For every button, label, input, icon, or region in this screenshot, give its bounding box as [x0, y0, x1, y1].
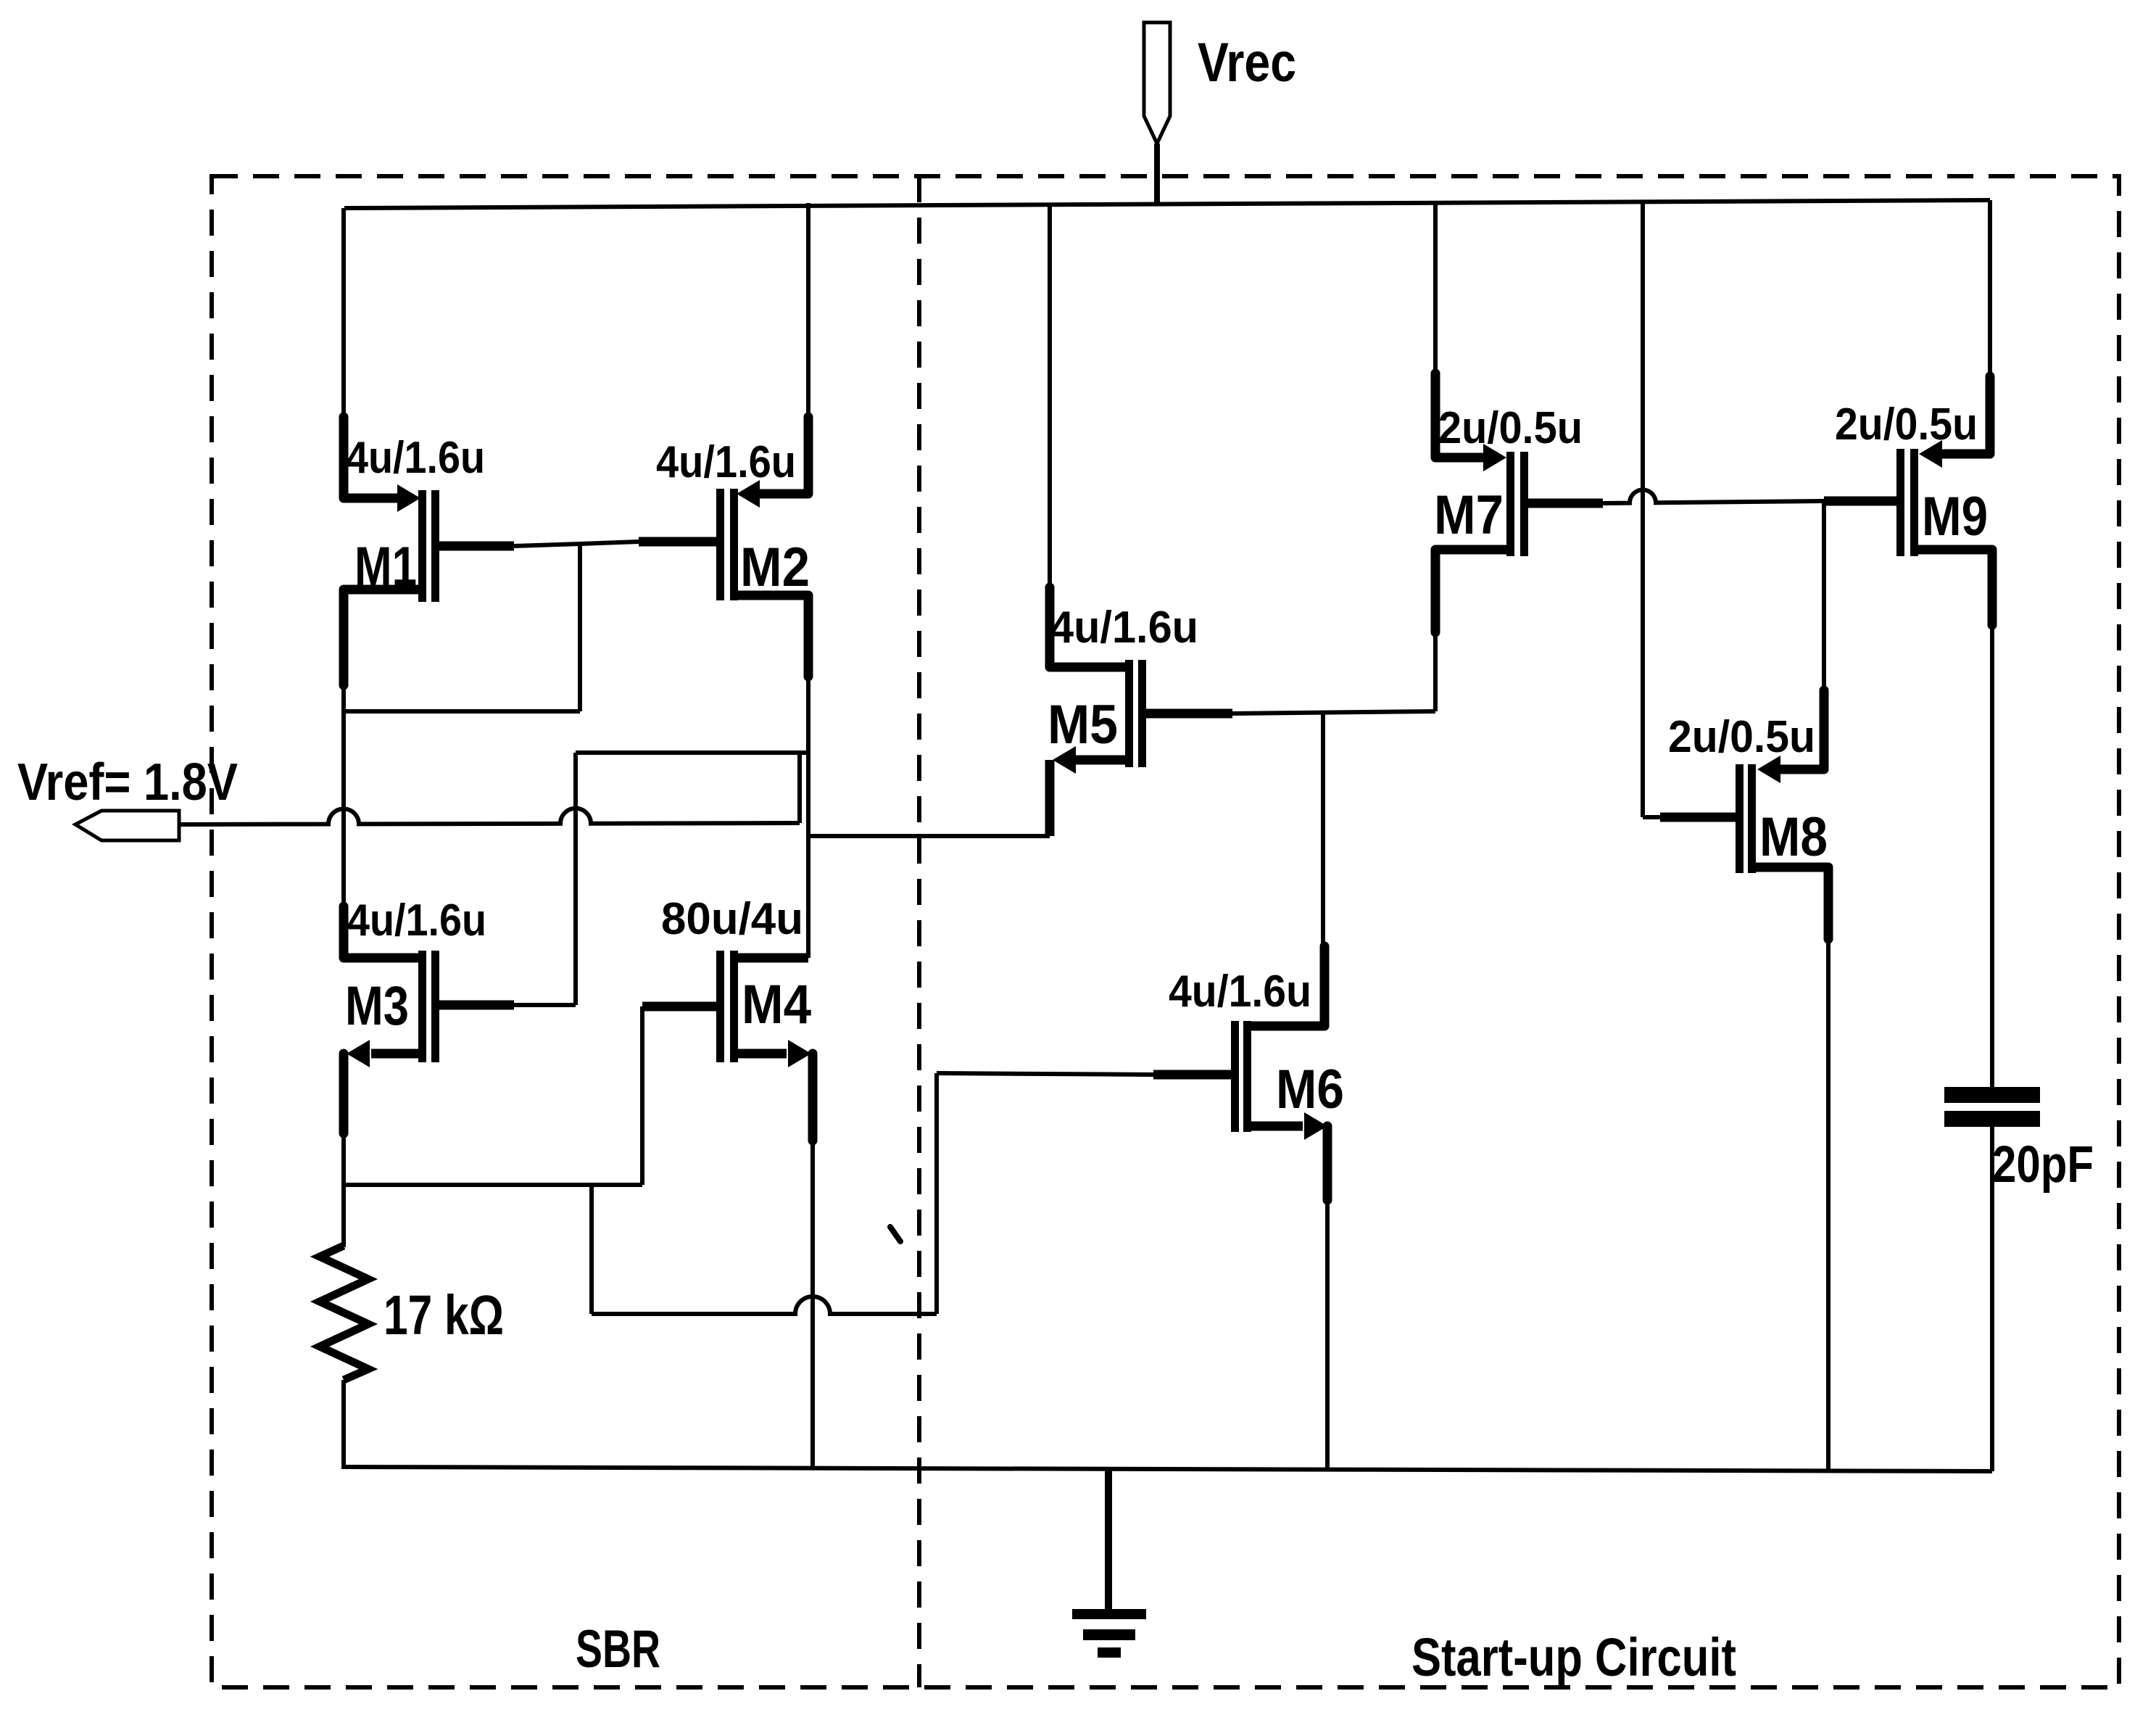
- port Vref output terminal: [75, 811, 179, 840]
- svg-text:M7: M7: [1434, 484, 1504, 546]
- svg-text:SBR: SBR: [576, 1620, 660, 1679]
- svg-text:Vref= 1.8V: Vref= 1.8V: [17, 753, 238, 811]
- svg-text:M5: M5: [1048, 694, 1118, 756]
- wire M1 gate to M2 gate: [514, 544, 580, 546]
- transistor M7 (PMOS 2u/0.5u): [1435, 444, 1603, 632]
- svg-text:4u/1.6u: 4u/1.6u: [656, 437, 796, 487]
- wire bottom bus: [343, 1467, 1992, 1471]
- wire rectangle top connecting gate-net to M2 drain: [576, 750, 810, 755]
- wire top supply bus (Vrec rail): [344, 200, 1990, 208]
- capacitor 20pF: [1944, 1087, 2040, 1471]
- svg-text:M8: M8: [1759, 806, 1828, 868]
- wire gate net down to M8 source: [1822, 501, 1826, 769]
- wire Vrec bus to M1 source: [341, 208, 346, 498]
- svg-text:M9: M9: [1922, 486, 1988, 547]
- wire M5 gate to M7 drain and M6 drain: [1232, 631, 1435, 950]
- transistor M8 (PMOS 2u/0.5u): [1643, 756, 1828, 873]
- svg-text:20pF: 20pF: [1992, 1136, 2094, 1194]
- transistor M3 (NMOS 4u/1.6u): [344, 590, 576, 1067]
- transistor M4 (NMOS 80u/4u): [642, 951, 811, 1067]
- wire M2 drain down to M4 drain: [804, 595, 813, 958]
- svg-text:4u/1.6u: 4u/1.6u: [347, 896, 486, 946]
- svg-text:M6: M6: [1276, 1059, 1344, 1120]
- transistor M1 (PMOS 4u/1.6u): [344, 484, 514, 602]
- wire M3 source down to resistor: [339, 1054, 349, 1247]
- wire Vrec stem to top bus: [1154, 144, 1160, 204]
- svg-text:M4: M4: [742, 974, 811, 1035]
- stray tick mark: [890, 1227, 900, 1241]
- wire M3 source to M4 gate (node): [344, 1006, 642, 1185]
- wire Vrec bus to M7 source: [1433, 201, 1438, 458]
- wire M6 source down to bottom bus: [1323, 1126, 1332, 1470]
- wire Vref horizontal with hops over M1-M3 wire and gate-net wire: [179, 809, 800, 824]
- svg-text:4u/1.6u: 4u/1.6u: [1050, 603, 1198, 653]
- resistor 17 kOhm: [320, 1246, 368, 1469]
- wire Vrec bus to M2 source: [806, 203, 810, 494]
- wire Vrec bus to M5 drain: [1048, 203, 1052, 667]
- dashed divider between SBR and Start-up Circuit: [917, 176, 921, 1687]
- transistor M6 (NMOS 4u/1.6u): [1153, 946, 1327, 1140]
- wire Vrec bus to M8 gate: [1641, 201, 1645, 817]
- wire gate-net vertical to M3 gate: [573, 753, 578, 1005]
- transistor M2 (PMOS 4u/1.6u): [639, 480, 808, 600]
- svg-text:17 kΩ: 17 kΩ: [383, 1284, 504, 1347]
- dashed boundary box of whole circuit: [212, 176, 2119, 1687]
- port Vrec terminal pin: [1144, 22, 1170, 144]
- wire M4 source down to bottom bus: [808, 1054, 818, 1468]
- svg-text:M2: M2: [740, 537, 810, 598]
- svg-text:2u/0.5u: 2u/0.5u: [1438, 403, 1583, 453]
- svg-text:M1: M1: [355, 536, 417, 597]
- svg-text:4u/1.6u: 4u/1.6u: [346, 433, 485, 483]
- svg-text:80u/4u: 80u/4u: [661, 894, 803, 944]
- ground symbol: [1072, 1469, 1146, 1658]
- wire node down toward M6 gate: [592, 1073, 1153, 1314]
- transistor M5 (PMOS 4u/1.6u): [1050, 660, 1232, 774]
- transistor M9 (PMOS 2u/0.5u): [1824, 440, 1992, 556]
- wire Vref up to rectangle top: [797, 753, 802, 823]
- wire gate junction down to diode connection of M1: [344, 544, 580, 711]
- svg-text:2u/0.5u: 2u/0.5u: [1835, 400, 1978, 450]
- svg-text:Vrec: Vrec: [1198, 32, 1296, 94]
- wire M7 gate to M9 gate with hop over M8-gate line: [1603, 489, 1824, 503]
- wire M9 drain down to capacitor: [1988, 550, 1997, 1087]
- wire M8 drain down to bottom bus: [1824, 867, 1833, 1471]
- svg-text:4u/1.6u: 4u/1.6u: [1169, 967, 1311, 1017]
- wire Vref node to M5 source: [808, 760, 1050, 836]
- svg-text:2u/0.5u: 2u/0.5u: [1668, 712, 1815, 762]
- svg-text:M3: M3: [345, 975, 409, 1037]
- wire Vrec bus right end down to M9 source: [1988, 200, 1992, 454]
- svg-text:Start-up Circuit: Start-up Circuit: [1411, 1627, 1736, 1687]
